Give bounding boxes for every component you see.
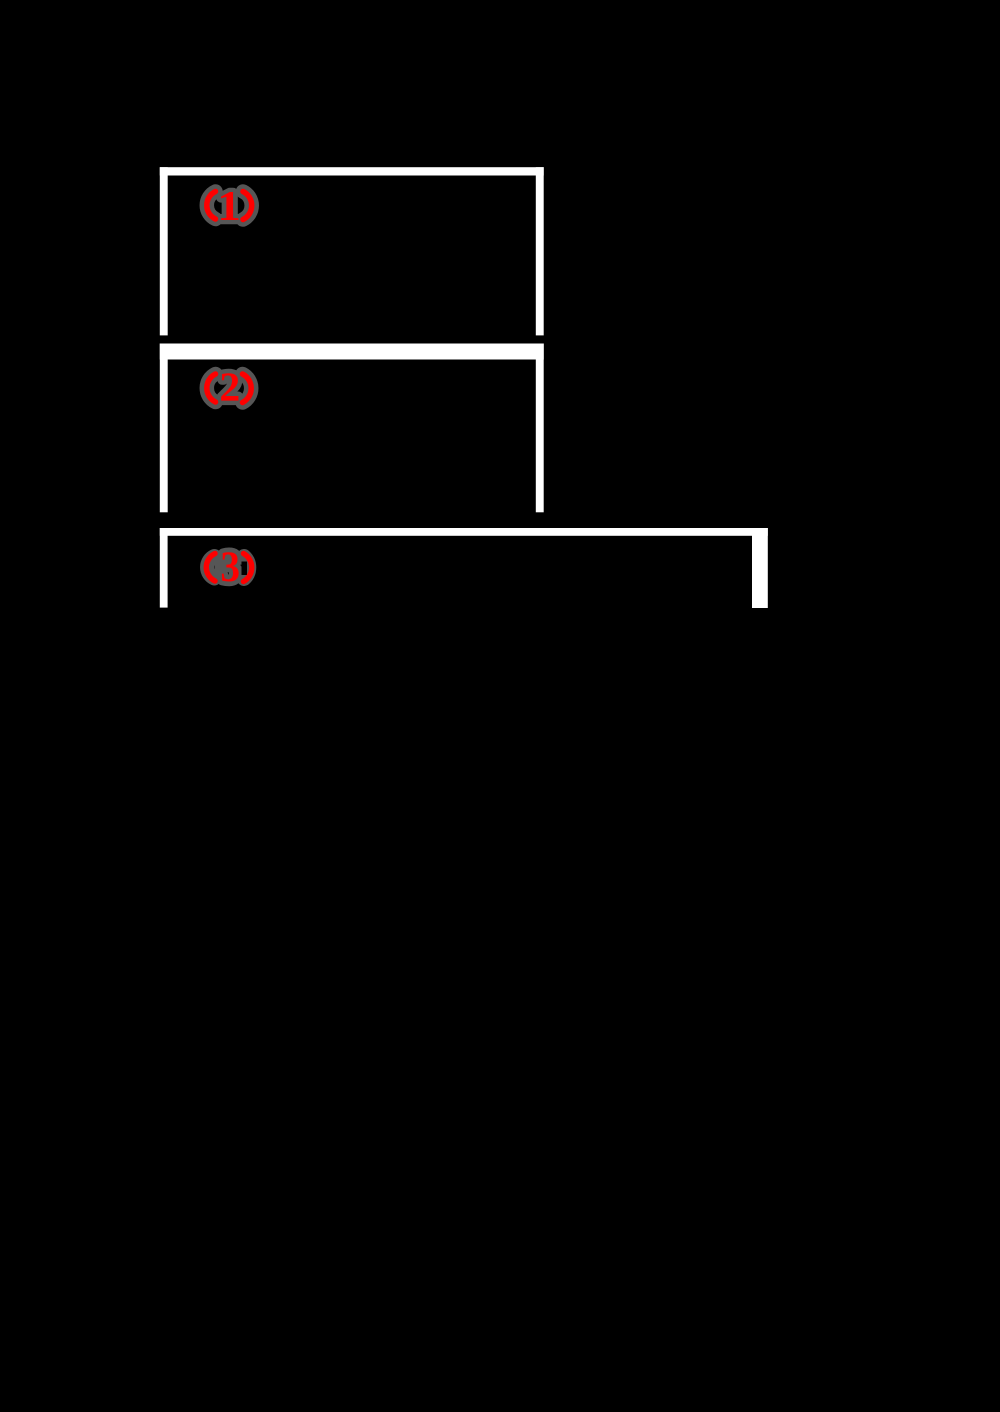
answer box 1 right border	[536, 167, 544, 335]
label (1) open paren halo	[207, 192, 216, 220]
label (2) open paren halo	[207, 374, 216, 402]
label (3) open paren halo	[207, 556, 214, 578]
answer box 1 top border	[160, 167, 544, 175]
answer box 2 left border	[160, 344, 168, 513]
svg-text:1: 1	[217, 182, 241, 229]
answer box 3 left border	[160, 528, 168, 608]
svg-text:2: 2	[219, 365, 240, 411]
answer box 2 top border	[160, 344, 544, 360]
answer box 3 right border	[752, 528, 768, 608]
label (1) open paren	[207, 192, 216, 220]
answer box 3 top border	[160, 528, 768, 536]
label (2) close paren halo	[243, 374, 252, 403]
label (3) close paren	[244, 554, 252, 582]
label (3) halo gap	[242, 562, 248, 576]
label (1) close paren	[243, 192, 252, 220]
label (3) halo fill patch	[215, 557, 227, 579]
label (2) open paren	[207, 374, 216, 402]
label (1) close paren halo	[243, 192, 252, 220]
answer box 1 left border	[160, 167, 168, 335]
answer box 2 right border	[536, 344, 544, 513]
label (3) open paren	[206, 554, 215, 582]
label (3) close paren halo	[244, 556, 249, 578]
svg-text:3: 3	[220, 542, 240, 590]
label (2) close paren	[243, 374, 252, 403]
